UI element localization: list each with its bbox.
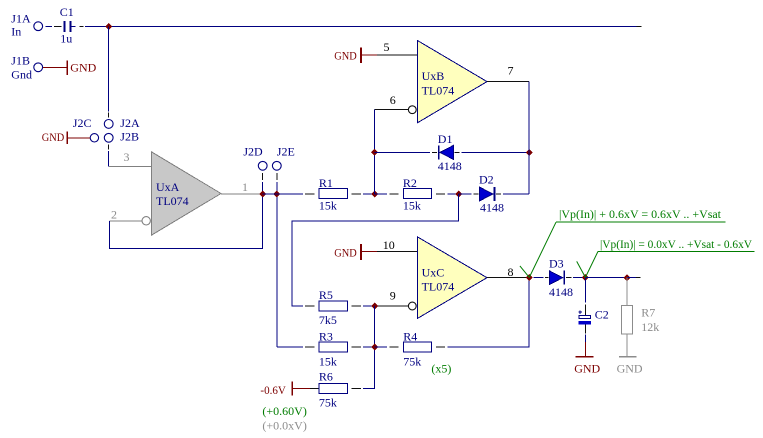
svg-text:(x5): (x5) — [431, 362, 451, 376]
svg-text:15k: 15k — [319, 355, 337, 369]
svg-text:R4: R4 — [403, 329, 417, 343]
svg-text:C1: C1 — [60, 5, 74, 19]
svg-text:Gnd: Gnd — [11, 68, 32, 82]
pin 8 UxC — [487, 265, 529, 279]
svg-text:15k: 15k — [403, 198, 421, 212]
wire D3 to C2 node — [566, 277, 585, 279]
wire ground to pin5 — [362, 54, 377, 56]
wire top junction down to J2A — [108, 26, 110, 117]
svg-text:5: 5 — [384, 40, 390, 54]
svg-text:7: 7 — [508, 64, 514, 78]
capacitor C2 (electrolytic) — [578, 307, 608, 324]
node R1-R2 junction — [371, 191, 378, 198]
pin 9 UxC — [378, 289, 408, 306]
svg-text:J1B: J1B — [11, 53, 30, 67]
pin 7 UxB — [487, 64, 529, 82]
connector J2B — [104, 130, 139, 144]
node D1 right junction — [526, 149, 533, 156]
svg-text:7k5: 7k5 — [319, 313, 337, 327]
node pin8 junction — [526, 274, 533, 281]
resistor R5 7k5 — [319, 288, 347, 327]
wire C1 to top junction — [72, 25, 109, 27]
svg-text:TL074: TL074 — [156, 194, 189, 208]
resistor R3 15k — [319, 329, 347, 368]
pin 10 UxC — [377, 238, 418, 252]
svg-text:GND: GND — [617, 362, 643, 376]
resistor R4 75k — [403, 329, 431, 368]
pin 2 UxA — [109, 208, 142, 222]
svg-text:R5: R5 — [319, 288, 333, 302]
svg-text:GND: GND — [334, 246, 357, 260]
diode D2 4148 — [479, 173, 504, 215]
svg-text:GND: GND — [70, 61, 96, 75]
svg-text:10: 10 — [383, 238, 395, 252]
wire R4 right up to pin8 node — [436, 278, 529, 347]
svg-text:|Vp(In)| = 0.0xV .. +Vsat - 0.: |Vp(In)| = 0.0xV .. +Vsat - 0.6xV — [600, 237, 752, 251]
svg-text:J1A: J1A — [11, 11, 31, 25]
svg-text:In: In — [11, 24, 21, 38]
svg-text:(+0.60V): (+0.60V) — [262, 404, 306, 418]
svg-text:R7: R7 — [641, 306, 655, 320]
svg-text:J2C: J2C — [73, 116, 92, 130]
wire R3 right to bus — [352, 346, 375, 348]
svg-text:C2: C2 — [595, 307, 609, 321]
svg-text:1: 1 — [242, 180, 248, 194]
node J2D junction — [259, 191, 266, 198]
op-amp UxC TL074 — [408, 237, 487, 319]
svg-text:J2E: J2E — [277, 144, 295, 158]
op-amp UxB TL074 — [408, 40, 487, 123]
connector J1A — [11, 11, 42, 38]
ground C2 — [574, 357, 600, 376]
svg-text:6: 6 — [390, 93, 396, 107]
svg-text:1u: 1u — [60, 31, 72, 45]
svg-text:4148: 4148 — [438, 159, 462, 173]
wire pin8 node to D3 — [534, 277, 549, 279]
resistor R7 12k (grayed) — [622, 306, 660, 334]
wire D1 left — [375, 151, 437, 153]
wire pin6 down to D1 row — [374, 110, 376, 153]
svg-text:J2A: J2A — [120, 116, 140, 130]
wire J2E down to node and to R3 row — [276, 173, 278, 347]
pin 1 UxA — [221, 180, 263, 194]
connector J1B — [11, 53, 42, 81]
svg-text:|Vp(In)| + 0.6xV = 0.6xV .. +V: |Vp(In)| + 0.6xV = 0.6xV .. +Vsat — [559, 207, 722, 221]
svg-text:75k: 75k — [319, 395, 337, 409]
wire C2 node to R7 node — [585, 277, 627, 279]
ground UxC pin10 — [334, 244, 361, 260]
svg-text:UxA: UxA — [156, 180, 180, 194]
annotation leader 1 — [520, 222, 726, 277]
wire D1 right — [454, 151, 529, 153]
svg-text:D2: D2 — [479, 173, 494, 187]
svg-text:4148: 4148 — [549, 285, 573, 299]
svg-text:15k: 15k — [319, 198, 337, 212]
svg-text:(+0.0xV): (+0.0xV) — [262, 418, 306, 432]
wire D2 to right column — [496, 193, 529, 195]
svg-text:GND: GND — [334, 49, 357, 63]
wire R2 to D2 node — [436, 193, 459, 195]
connector J2D — [243, 144, 267, 170]
svg-text:75k: 75k — [403, 355, 421, 369]
wire R7 node down to R7 (grayed) — [626, 278, 628, 306]
node R7 junction — [624, 274, 631, 281]
svg-text:R6: R6 — [319, 370, 333, 384]
ground R7 (grayed) — [617, 357, 643, 376]
svg-text:GND: GND — [42, 130, 65, 144]
svg-text:R1: R1 — [319, 176, 333, 190]
svg-text:2: 2 — [111, 208, 117, 222]
pin 6 UxB — [375, 93, 409, 110]
svg-text:4148: 4148 — [480, 201, 504, 215]
svg-text:9: 9 — [390, 289, 396, 303]
node D1 left junction — [371, 149, 378, 156]
svg-text:TL074: TL074 — [422, 83, 455, 97]
connector J2E — [272, 144, 294, 170]
wire R5 right to pin9 node — [352, 305, 378, 307]
svg-text:3: 3 — [124, 150, 130, 164]
ground J1B — [67, 60, 96, 75]
wire mid column D1 row to R1 row — [374, 152, 376, 194]
node R2-D2 junction — [455, 191, 462, 198]
node J2E junction — [273, 191, 280, 198]
wire R6 right to bus — [352, 388, 376, 390]
wire R7 down to ground (grayed) — [626, 334, 628, 357]
svg-text:8: 8 — [508, 265, 514, 279]
op-amp UxA TL074 (grayed) — [142, 152, 221, 235]
wire link D2 node down and left to R5 — [292, 194, 459, 306]
svg-text:TL074: TL074 — [422, 280, 455, 294]
pin 5 UxB — [377, 40, 418, 55]
ground UxB pin5 — [334, 48, 361, 64]
svg-text:GND: GND — [574, 362, 600, 376]
wire J1B to ground — [43, 66, 67, 68]
wire J2D down to node — [262, 173, 264, 194]
svg-text:-0.6V: -0.6V — [260, 383, 286, 397]
svg-text:J2B: J2B — [120, 130, 139, 144]
svg-text:J2D: J2D — [243, 144, 263, 158]
voltage source -0.6V — [260, 382, 292, 397]
svg-text:D1: D1 — [438, 132, 453, 146]
svg-text:UxB: UxB — [422, 69, 445, 83]
node C2 junction — [582, 274, 589, 281]
pin 3 UxA — [109, 150, 151, 166]
wire ground to pin10 — [362, 251, 377, 253]
wire output rail end — [627, 277, 641, 279]
wire ground to J2C — [68, 137, 90, 139]
svg-text:R3: R3 — [319, 329, 333, 343]
diode D1 4148 — [438, 132, 462, 173]
wire right column pin7 to D2 row — [528, 82, 530, 194]
wire J2B down to pin3 — [108, 145, 110, 167]
wire feedback loop UxA pin2 — [109, 194, 262, 249]
wire J1A to C1 (dashed pin stubs) — [45, 25, 61, 27]
wire top rail — [109, 25, 642, 27]
wire C2 down to ground — [584, 325, 586, 357]
wire node to R1 — [263, 193, 315, 195]
svg-text:UxC: UxC — [422, 265, 445, 279]
connector J2C — [73, 116, 99, 142]
resistor R2 15k — [403, 176, 432, 212]
wire R1 to mid node — [352, 193, 375, 195]
connector J2A — [104, 116, 140, 130]
annotation leader 2 — [577, 251, 755, 277]
wire mid bus down — [374, 306, 376, 389]
node R3-R4 junction — [371, 344, 378, 351]
wire R3 row from J2E column — [277, 346, 315, 348]
wire -0.6V to R6 — [293, 388, 318, 390]
svg-text:12k: 12k — [641, 320, 659, 334]
ground J2C — [42, 130, 67, 144]
capacitor C1 1u — [60, 5, 74, 46]
resistor R1 15k — [319, 176, 347, 212]
wire D2 node to D2 — [459, 193, 479, 195]
node pin9 junction — [371, 303, 378, 310]
svg-text:R2: R2 — [403, 176, 417, 190]
node top junction — [105, 23, 112, 30]
wire C2 node down to C2 — [584, 278, 586, 315]
wire bus to R4 — [375, 346, 399, 348]
resistor R6 75k — [319, 370, 347, 410]
svg-text:D3: D3 — [549, 257, 564, 271]
wire mid node to R2 — [375, 193, 399, 195]
diode D3 4148 — [549, 257, 573, 300]
